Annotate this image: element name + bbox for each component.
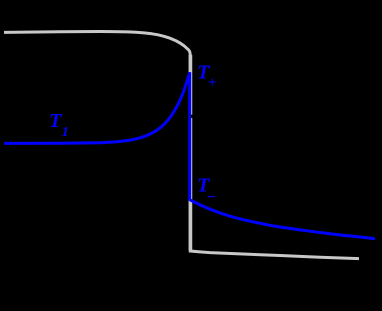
small black tick on the shock line — [191, 115, 193, 118]
gray downstream line — [189, 251, 359, 259]
blue temperature curve with Zel'dovich spike — [4, 72, 375, 238]
gray gas density/velocity step curve — [4, 32, 190, 61]
gray vertical shock front line — [189, 55, 193, 251]
svg-text:+: + — [208, 75, 217, 91]
svg-text:1: 1 — [62, 125, 69, 140]
svg-text:−: − — [207, 189, 216, 206]
